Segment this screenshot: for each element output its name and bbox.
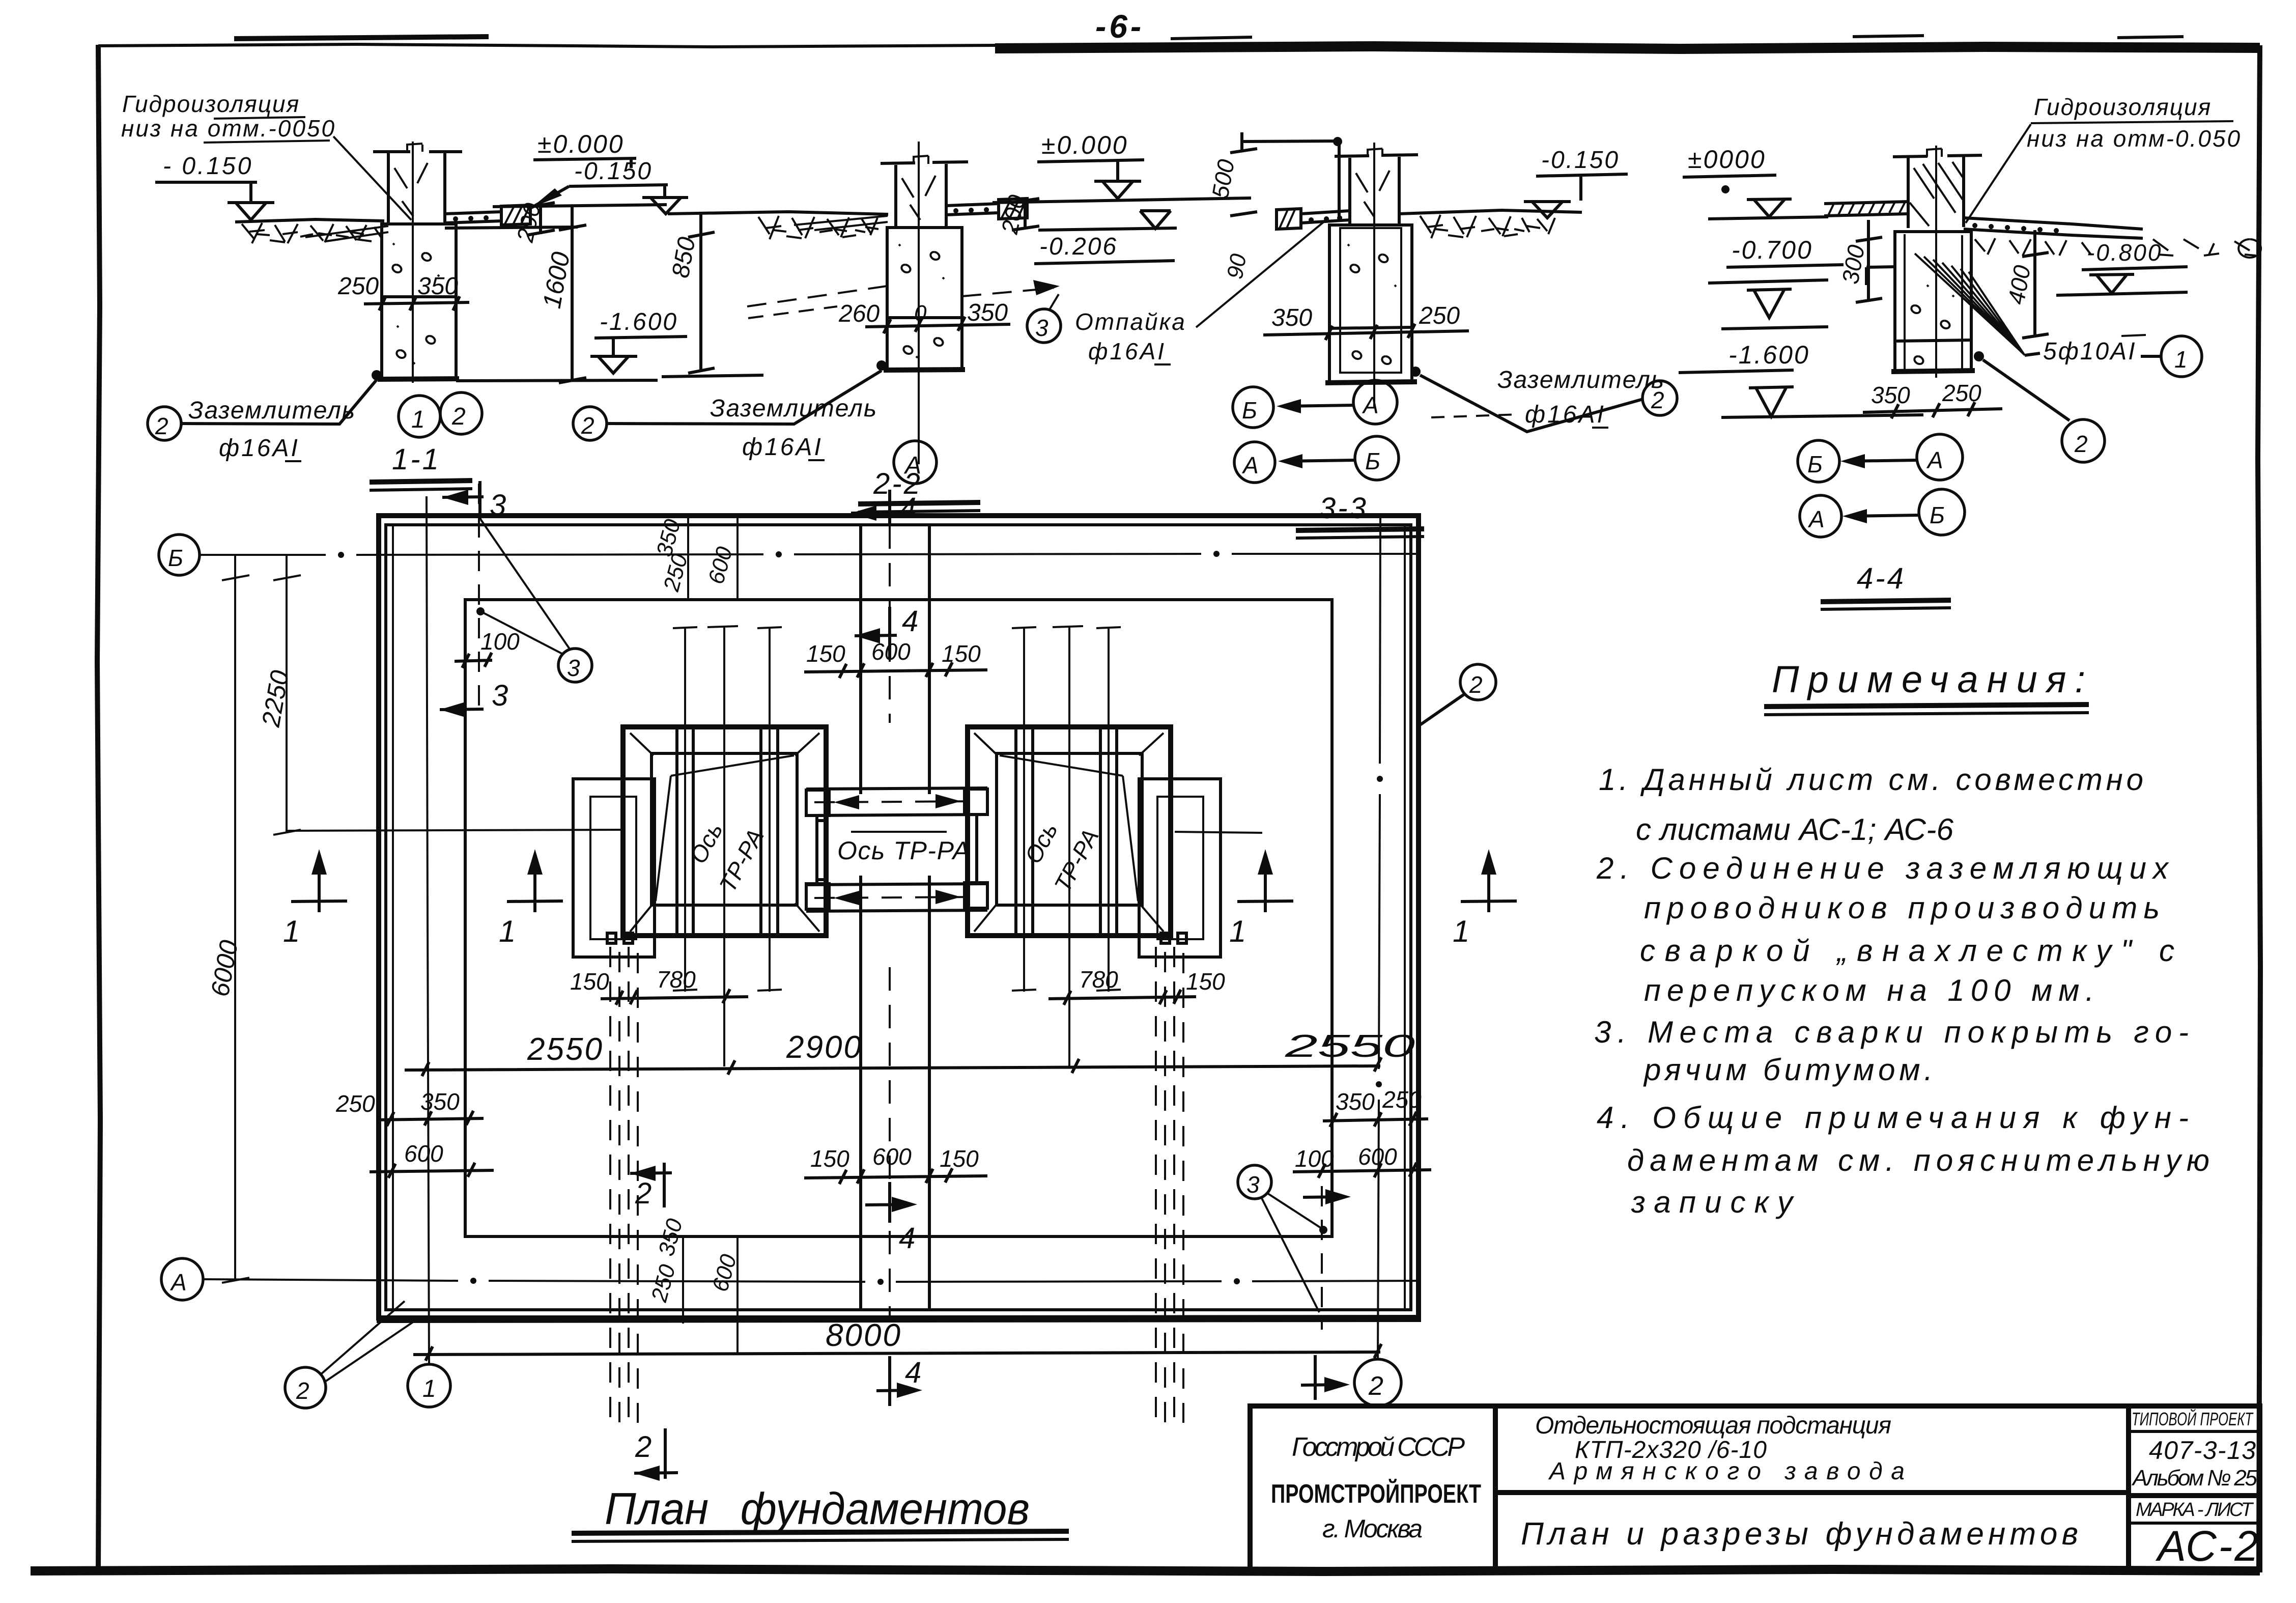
svg-text:2: 2 [296,1377,309,1404]
svg-text:3: 3 [567,655,580,681]
svg-text:1: 1 [2174,346,2188,373]
svg-text:Б: Б [1930,502,1945,528]
svg-text:8000: 8000 [826,1318,902,1353]
elevation -0.206 [1038,228,1177,230]
svg-text:1: 1 [1453,914,1469,948]
border top [98,44,998,47]
slab right with dots [946,204,999,215]
circles Б-А row 1 [1233,387,1273,428]
dim 2250 left [273,555,301,835]
svg-text:ф16АI: ф16АI [219,435,300,462]
svg-text:150: 150 [1186,968,1225,995]
fan 5ф10АI [1915,254,2025,355]
soil hatch [758,216,878,239]
foundation 3-3 cup [1329,225,1412,382]
svg-text:90: 90 [1223,252,1252,281]
svg-text:2: 2 [635,1177,651,1210]
svg-text:1: 1 [422,1375,436,1402]
circle 2 bottom left leader [285,1367,326,1408]
svg-text:780: 780 [657,966,696,993]
column 2-2 [896,164,946,228]
svg-text:2: 2 [451,403,466,430]
svg-text:4: 4 [899,1222,915,1255]
svg-text:±0000: ±0000 [1688,145,1766,174]
svg-text:А: А [1241,452,1259,479]
svg-text:1: 1 [1229,914,1246,948]
column 1-1 [388,153,445,225]
foundation bottom [1891,371,1975,372]
svg-text:780: 780 [1079,966,1118,993]
circles Б-А row 1 [1798,440,1839,482]
circle 2 right leader [1460,664,1496,700]
svg-text:600: 600 [872,1143,912,1170]
svg-text:1-1: 1-1 [392,443,441,476]
svg-text:А: А [1807,506,1825,532]
svg-text:2: 2 [1368,1371,1383,1401]
corridor tabs [806,790,829,815]
ground right [445,227,578,228]
circle 2 [1642,381,1677,415]
center strip verticals [861,525,929,1309]
left anchor bolts [607,933,616,943]
svg-text:даментам см. пояснительную: даментам см. пояснительную [1627,1143,2209,1177]
hatched block right [501,205,530,225]
svg-text:±0.000: ±0.000 [1041,131,1128,159]
svg-text:Альбом № 25: Альбом № 25 [2131,1466,2258,1490]
svg-text:350: 350 [1871,382,1910,408]
svg-text:МАРКА - ЛИСТ: МАРКА - ЛИСТ [2136,1499,2254,1521]
svg-text:-1.600: -1.600 [1728,341,1810,369]
grounding dot and leader [1974,351,1984,361]
grounding dot [876,360,887,371]
svg-text:150: 150 [940,1145,979,1172]
svg-text:2550: 2550 [527,1032,604,1067]
dim 6000 left [222,555,249,1283]
svg-text:2. Соединение заземляющих: 2. Соединение заземляющих [1596,851,2169,885]
section cut 2 bottom mark [634,1428,678,1479]
svg-text:-0.206: -0.206 [1039,233,1118,260]
right pit outer [968,727,1171,936]
svg-text:с листами АС-1; АС-6: с листами АС-1; АС-6 [1636,812,1954,847]
circles А-Б row 2 [1800,495,1841,537]
3 mark bottom [440,709,484,710]
circle 2 leader [148,407,181,440]
svg-text:2: 2 [2074,431,2088,457]
svg-text:2900: 2900 [786,1030,863,1065]
svg-text:5ф10АI: 5ф10АI [2043,338,2137,365]
svg-text:350: 350 [420,1088,460,1115]
right pit rail axes [1012,627,1121,992]
right anchor bolts [1161,933,1170,943]
svg-text:350: 350 [1271,304,1312,331]
svg-text:Б: Б [1365,448,1380,474]
svg-text:350: 350 [1336,1088,1375,1115]
foundation bottom [884,370,965,370]
svg-text:1: 1 [499,914,516,948]
svg-text:-6-: -6- [1095,8,1144,45]
4 mark bottom outside [876,1356,916,1406]
svg-text:1: 1 [283,914,300,948]
border right [2258,45,2260,1570]
corridor middle box [817,814,977,885]
left pit rails [677,727,778,936]
section cut 3 right dashed [1321,1186,1323,1330]
level line right [993,198,1251,203]
4 mark top in plan [855,607,897,660]
svg-text:2: 2 [155,413,168,439]
svg-text:План фундаментов: План фундаментов [605,1483,1030,1534]
column 3-3 [1350,157,1399,225]
leader to column [333,136,411,220]
border bottom [31,1569,2260,1571]
svg-text:Гидроизоляция: Гидроизоляция [122,91,300,117]
foundation bottom [1325,382,1417,383]
leader to column [1966,124,2031,223]
notes [1594,658,2209,1219]
svg-text:350: 350 [417,273,458,300]
section 1-1 [121,91,687,522]
foundation 1-1 [382,224,456,379]
svg-text:150: 150 [810,1145,849,1172]
section cut 3 left dashed [478,484,480,715]
svg-text:600: 600 [871,638,911,665]
level line ±0.000 [493,205,667,207]
circle 2 [2062,419,2105,462]
pavement right with dots [1964,218,2143,229]
svg-text:низ на отм-0.050: низ на отм-0.050 [2027,125,2242,152]
foundation bottom [378,379,459,379]
soil hatch [1420,215,1555,238]
left pit inner funnel [651,753,797,905]
svg-text:4. Общие примечания к фун-: 4. Общие примечания к фун- [1597,1101,2189,1135]
svg-text:низ на отм.-0050: низ на отм.-0050 [121,115,336,142]
right pit diagonals [1000,755,1138,901]
svg-text:-0.800: -0.800 [2087,239,2162,266]
svg-text:407-3-13: 407-3-13 [2149,1436,2256,1465]
ground line left [235,219,384,222]
inner boundary [465,600,1332,1236]
slab left with dots [1301,211,1350,223]
soil hatch [242,223,382,243]
3 mark bottom right [1301,1355,1342,1400]
right bolt bundle dashed [1156,947,1183,1423]
grounding dot and leader [1410,367,1421,377]
svg-text:4: 4 [902,605,918,638]
left bolt bundle dashed [610,947,638,1423]
section 1 marks [283,849,347,948]
svg-text:2: 2 [581,412,594,439]
svg-text:250: 250 [335,1090,375,1117]
svg-text:250: 250 [1419,302,1460,329]
svg-text:А: А [1362,392,1379,418]
ground line left [668,212,888,214]
svg-text:1: 1 [411,406,425,433]
svg-text:2: 2 [635,1430,651,1464]
svg-text:250: 250 [1382,1086,1422,1113]
svg-text:рячим битумом.: рячим битумом. [1643,1053,1933,1087]
soil right [1975,238,2256,256]
floor slab left hatched [1824,202,1908,216]
svg-text:100: 100 [480,628,520,655]
svg-text:ф16АI: ф16АI [1088,338,1166,364]
outer slab edge double [379,516,1419,1318]
leader from Отпайка to foundation [1196,219,1327,327]
svg-text:Госстрой СССР: Госстрой СССР [1292,1432,1465,1462]
svg-text:г. Москва: г. Москва [1322,1514,1423,1543]
circles 1 2 [399,396,440,437]
circle А [894,441,937,484]
axis Б [159,535,200,575]
circle 3 right leaders [1238,1165,1271,1199]
svg-text:А: А [1926,447,1943,473]
excavation bracket with 500 [1242,132,1339,219]
section cut 4 center dashed [889,525,891,1316]
svg-text:150: 150 [570,968,609,995]
svg-text:2: 2 [1651,387,1664,413]
right pit axis [1053,626,1083,1066]
ground line right [1399,210,1582,214]
blind area wedge [305,226,388,241]
svg-text:- 0.150: - 0.150 [163,153,253,180]
svg-text:1. Данный лист см. совместно: 1. Данный лист см. совместно [1599,763,2143,797]
svg-text:350: 350 [967,299,1008,326]
svg-text:250: 250 [337,273,379,300]
svg-text:-0.700: -0.700 [1732,236,1813,264]
svg-text:Отдельностоящая подстанция: Отдельностоящая подстанция [1535,1412,1891,1439]
section mark 4 [851,490,893,525]
svg-text:2: 2 [1469,671,1483,698]
foundation 4-4 [1895,232,1971,371]
svg-text:ТИПОВОЙ ПРОЕКТ: ТИПОВОЙ ПРОЕКТ [2132,1408,2254,1429]
section 3-3 [1196,132,1677,538]
grounding dot [372,370,382,380]
slab right with dots [445,212,501,223]
svg-text:3-3: 3-3 [1319,492,1368,525]
bottom extra thick line [377,1318,1421,1319]
left pit diagonals [656,755,794,901]
svg-text:-1.600: -1.600 [600,308,678,335]
right outrigger [1139,779,1221,957]
svg-text:ПРОМСТРОЙПРОЕКТ: ПРОМСТРОЙПРОЕКТ [1271,1479,1481,1509]
svg-text:Заземлитель: Заземлитель [710,395,877,422]
svg-text:АС-2: АС-2 [2155,1522,2258,1570]
right pit inner funnel [997,753,1142,905]
svg-text:ф16АI: ф16АI [1525,401,1606,428]
circle 1 [2161,336,2202,377]
svg-text:Заземлитель: Заземлитель [1497,367,1665,393]
dashed tap line отпайка [747,286,887,306]
right pit rails [1016,727,1117,936]
corridor arrows [834,794,961,905]
filled arrow to slab [531,188,562,208]
circle 3 with leaders [558,649,592,682]
svg-text:100: 100 [1295,1145,1334,1172]
column axis [412,142,414,383]
corridor bottom band [806,884,987,911]
svg-text:План и разрезы фундаментов: План и разрезы фундаментов [1521,1516,2078,1552]
circle 2 leader [573,407,607,440]
svg-text:600: 600 [1358,1143,1397,1170]
foundation plan [159,484,1517,1541]
wall column 4-4 [1908,157,1964,228]
svg-text:Отпайка: Отпайка [1075,308,1186,335]
svg-text:4-4: 4-4 [1857,562,1906,595]
elevation -0.150 left triangle [642,186,688,214]
section cut 2 top mark [630,1163,672,1207]
svg-text:Б: Б [1242,397,1257,424]
3 mark top right [1303,1197,1344,1197]
svg-text:-0.150: -0.150 [1541,147,1620,174]
circles А-Б row 2 [1234,442,1275,483]
svg-text:3: 3 [492,679,508,712]
svg-text:2550: 2550 [1284,1029,1415,1064]
circle 3 [1027,309,1061,343]
svg-text:Б: Б [1807,451,1823,477]
transformer axis line [287,830,1262,833]
axis 2 [1354,1359,1401,1406]
axis 1 [408,1364,450,1407]
svg-text:Б: Б [168,545,183,571]
svg-text:А: А [169,1269,187,1296]
svg-text:4: 4 [900,492,916,525]
left pit outer [623,727,826,936]
svg-text:150: 150 [942,640,981,667]
corridor top band [806,788,987,815]
section mark 3 [442,481,484,519]
section 4-4 [1679,94,2261,609]
svg-text:Гидроизоляция: Гидроизоляция [2034,94,2212,120]
svg-text:600: 600 [404,1140,443,1167]
svg-text:3. Места сварки покрыть го-: 3. Места сварки покрыть го- [1594,1015,2189,1049]
corridor dashed centers [814,801,982,898]
svg-text:±0.000: ±0.000 [537,130,625,158]
title block [1250,1406,2260,1570]
column axis [1935,146,1937,378]
svg-text:Заземлитель: Заземлитель [188,397,356,424]
bottom level line [456,380,658,381]
left outrigger [573,779,655,957]
left pit axis [707,626,738,1066]
svg-text:250: 250 [1942,380,1981,406]
svg-text:150: 150 [806,640,845,667]
blind area wedge [794,216,888,230]
title block frame [1250,1406,2260,1570]
svg-text:3: 3 [1035,315,1048,341]
section 2-2 [573,131,1251,525]
4 mark bottom in plan [865,1182,911,1223]
svg-text:3: 3 [1246,1171,1260,1198]
axis А [161,1258,203,1300]
svg-text:ф16АI: ф16АI [742,434,823,461]
svg-text:-0.150: -0.150 [574,158,653,185]
svg-text:260: 260 [838,300,880,327]
svg-text:4: 4 [905,1356,921,1389]
bottom level line [662,375,763,377]
column axis [918,142,920,464]
foundation 2-2 [887,228,962,370]
left pit rail axes [673,627,782,992]
border left [97,45,100,1572]
column axis [1373,143,1375,407]
